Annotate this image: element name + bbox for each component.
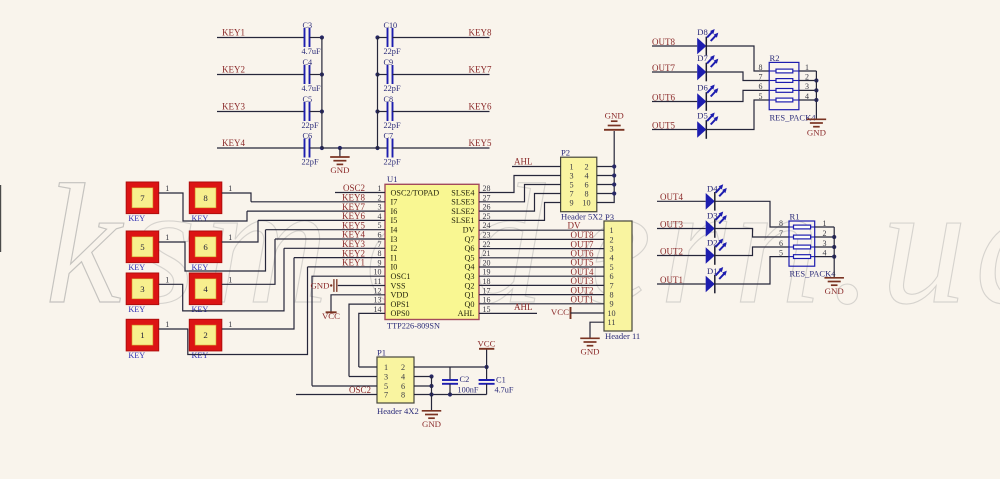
svg-text:1: 1 <box>378 184 382 193</box>
svg-text:7: 7 <box>779 229 783 238</box>
wire KEY8 to chip pin 2 <box>251 201 385 203</box>
junction P1 bus pin 8 <box>429 392 433 396</box>
svg-text:C9: C9 <box>384 58 394 67</box>
power port VCC above C1 <box>486 349 488 367</box>
key button 1 <box>126 319 159 351</box>
wire P1 pin 7 OSC2 <box>296 394 377 396</box>
svg-text:KEY2: KEY2 <box>222 65 245 75</box>
svg-text:3: 3 <box>569 171 573 180</box>
svg-text:Q5: Q5 <box>464 253 474 262</box>
IC U1 TTP226-809SN body <box>385 184 479 319</box>
junction R2 bus <box>814 98 818 102</box>
svg-text:6: 6 <box>584 180 588 189</box>
svg-text:2: 2 <box>401 363 405 372</box>
svg-text:AHL: AHL <box>514 302 533 312</box>
svg-text:7: 7 <box>378 240 382 249</box>
wire P2 right bus to GND <box>597 131 614 203</box>
wire KEY4 to C6 <box>217 147 305 149</box>
key button 2 <box>189 319 222 351</box>
wire D8 cathode to R2 <box>706 46 769 71</box>
svg-text:KEY5: KEY5 <box>469 138 492 148</box>
wire P1 pin 3 <box>349 376 377 378</box>
svg-text:KEY7: KEY7 <box>469 65 492 75</box>
svg-text:1: 1 <box>165 233 169 242</box>
svg-text:SLSE1: SLSE1 <box>451 216 474 225</box>
svg-text:I5: I5 <box>391 216 398 225</box>
wire R2 right pin to bus <box>799 70 817 72</box>
junction P2 bus <box>612 182 616 186</box>
junction P1 bus pin 4 <box>429 374 433 378</box>
svg-text:OSC2/TOPAD: OSC2/TOPAD <box>391 188 440 197</box>
wire OUT6 chip pin 21 to P3 pin 4 <box>479 257 604 259</box>
svg-text:R2: R2 <box>770 53 780 63</box>
svg-text:Q3: Q3 <box>464 272 474 281</box>
svg-text:7: 7 <box>759 72 763 81</box>
wire OUT3 anode <box>657 228 706 230</box>
wire P1 pin 6 to bus <box>414 385 432 387</box>
svg-text:C6: C6 <box>303 132 313 141</box>
LED D1 <box>706 276 715 293</box>
svg-text:4.7uF: 4.7uF <box>495 386 514 395</box>
svg-text:28: 28 <box>483 184 491 193</box>
wire cap to left bus <box>310 74 322 76</box>
wire R2 right pin to bus <box>799 80 817 82</box>
svg-text:OUT3: OUT3 <box>660 219 683 229</box>
wire D7 cathode to R2 <box>706 72 769 81</box>
capacitor C6 <box>304 139 306 158</box>
svg-text:C7: C7 <box>384 132 394 141</box>
svg-text:TTP226-809SN: TTP226-809SN <box>387 322 440 331</box>
svg-text:22pF: 22pF <box>384 47 401 56</box>
svg-text:2: 2 <box>203 330 207 340</box>
svg-text:4: 4 <box>584 171 588 180</box>
svg-text:GND: GND <box>422 419 441 429</box>
capacitor C1 <box>486 367 488 380</box>
wire key 2 to chip <box>222 258 294 329</box>
wire OUT7 anode <box>652 71 697 73</box>
svg-text:8: 8 <box>203 193 208 203</box>
svg-text:1: 1 <box>165 320 169 329</box>
LED D5 <box>697 121 706 138</box>
svg-text:U1: U1 <box>387 174 398 184</box>
svg-text:I1: I1 <box>391 253 398 262</box>
capacitor C5 <box>304 102 306 121</box>
svg-text:Header 11: Header 11 <box>605 331 640 341</box>
svg-text:KEY6: KEY6 <box>469 102 492 112</box>
svg-text:VDD: VDD <box>391 291 409 300</box>
svg-text:C10: C10 <box>384 21 398 30</box>
svg-text:Q4: Q4 <box>464 263 474 272</box>
svg-text:7: 7 <box>609 281 613 290</box>
key button 3 <box>126 273 159 305</box>
svg-text:OUT5: OUT5 <box>652 120 675 130</box>
wire cap to label KEY7 <box>393 74 490 76</box>
svg-text:OSC1: OSC1 <box>391 272 411 281</box>
wire P1 pin 1 <box>359 366 377 368</box>
wire D3 cathode to R1 <box>715 229 789 238</box>
svg-text:KEY: KEY <box>192 305 209 314</box>
wire R1 right pin to bus <box>815 246 835 248</box>
svg-text:KEY1: KEY1 <box>342 258 365 268</box>
svg-text:1: 1 <box>228 320 232 329</box>
svg-text:6: 6 <box>203 242 208 252</box>
junction R1 bus <box>832 255 836 259</box>
svg-text:KEY1: KEY1 <box>222 28 245 38</box>
LED D6 <box>697 93 706 110</box>
junction left bus <box>320 72 324 76</box>
svg-text:C2: C2 <box>460 375 470 384</box>
svg-text:22pF: 22pF <box>384 121 401 130</box>
wire P1 pin 5 <box>312 385 377 387</box>
svg-text:GND: GND <box>807 128 826 138</box>
wire KEY2 to chip pin 8 <box>294 257 385 259</box>
junction right bus <box>375 109 379 113</box>
svg-text:VSS: VSS <box>391 281 406 290</box>
svg-text:6: 6 <box>378 231 382 240</box>
svg-text:5: 5 <box>378 221 382 230</box>
svg-text:5: 5 <box>569 180 573 189</box>
svg-text:OSC2: OSC2 <box>349 385 371 395</box>
svg-text:2: 2 <box>609 235 613 244</box>
wire KEY1 to C3 <box>217 37 305 39</box>
svg-text:9: 9 <box>378 258 382 267</box>
ground below R2 <box>807 118 827 120</box>
svg-text:KEY: KEY <box>128 351 145 360</box>
svg-text:5: 5 <box>140 242 145 252</box>
svg-text:2: 2 <box>378 193 382 202</box>
svg-text:OUT8: OUT8 <box>652 37 675 47</box>
svg-text:7: 7 <box>140 193 145 203</box>
svg-text:KEY8: KEY8 <box>469 28 492 38</box>
key button 5 <box>126 231 159 263</box>
watermark text ksmodern.ua <box>45 150 1000 340</box>
ground below R1 <box>824 277 844 279</box>
wire R1 right pin to bus <box>815 256 835 258</box>
svg-text:6: 6 <box>609 272 613 281</box>
wire R2 gnd bus <box>815 71 817 119</box>
wire R1 right pin to bus <box>815 226 835 228</box>
wire SLSE2 chip pin 26 to P2 pin 7 <box>479 194 561 212</box>
svg-text:k: k <box>45 150 129 340</box>
svg-text:18: 18 <box>483 277 491 286</box>
wire P2 pin to bus <box>597 166 614 168</box>
svg-text:3: 3 <box>609 245 613 254</box>
right cap bus wire <box>377 38 379 149</box>
header P3 body <box>604 221 632 331</box>
wire R1 gnd bus <box>833 227 835 278</box>
svg-text:D6: D6 <box>697 83 708 93</box>
junction at GND stub <box>338 146 342 150</box>
ground port at VSS pin 11 <box>338 285 385 287</box>
svg-text:4.7uF: 4.7uF <box>302 84 322 93</box>
svg-text:C3: C3 <box>303 21 313 30</box>
wire SLSE4 chip pin 28 to P2 pin 3 <box>479 176 561 193</box>
svg-text:RES_PACK4: RES_PACK4 <box>770 113 817 123</box>
wire OUT5 anode <box>652 129 697 131</box>
svg-text:5: 5 <box>609 263 613 272</box>
wire OUT6 anode <box>652 101 697 103</box>
wire cap to left bus <box>310 147 322 149</box>
wire OPS0 pin 14 to P1 pin 1 <box>359 313 385 367</box>
svg-text:4: 4 <box>203 284 208 294</box>
svg-text:D2: D2 <box>707 238 718 248</box>
svg-text:11: 11 <box>374 277 382 286</box>
junction right bus <box>375 35 379 39</box>
wire OPS1 pin 13 to P1 pin 3 <box>349 304 385 376</box>
svg-text:3: 3 <box>378 203 382 212</box>
svg-text:Header 4X2: Header 4X2 <box>377 406 419 416</box>
svg-text:I3: I3 <box>391 235 398 244</box>
wire P3 pin 11 to GND <box>590 322 604 338</box>
capacitor C7 <box>378 147 388 149</box>
wire P1 pin 2 to VCC <box>414 366 487 368</box>
wire OUT8 chip pin 23 to P3 pin 2 <box>479 238 604 240</box>
svg-text:Q0: Q0 <box>464 300 474 309</box>
wire OSC2 pin 1 <box>335 192 385 194</box>
svg-text:24: 24 <box>483 221 491 230</box>
svg-text:I6: I6 <box>391 207 398 216</box>
LED D4 <box>706 193 715 210</box>
capacitor C3 <box>304 28 306 47</box>
svg-text:GND: GND <box>605 111 624 121</box>
wire key 4 to chip <box>222 239 275 284</box>
wire cap to label KEY5 <box>393 147 490 149</box>
svg-text:8: 8 <box>779 219 783 228</box>
svg-text:4: 4 <box>378 212 382 221</box>
svg-text:P2: P2 <box>561 147 570 157</box>
wire OUT2 chip pin 17 to P3 pin 8 <box>479 294 604 296</box>
svg-text:7: 7 <box>384 390 388 399</box>
svg-text:1: 1 <box>165 275 169 284</box>
svg-text:C5: C5 <box>303 95 313 104</box>
svg-text:OUT7: OUT7 <box>652 63 675 73</box>
capacitor C8 <box>378 111 388 113</box>
junction C2 bottom <box>448 392 452 396</box>
svg-text:GND: GND <box>580 347 599 357</box>
wire D5 cathode to R2 <box>706 100 769 130</box>
svg-text:D7: D7 <box>697 53 708 63</box>
svg-text:100nF: 100nF <box>458 385 479 394</box>
svg-text:2: 2 <box>584 162 588 171</box>
header P1 body <box>377 357 414 403</box>
svg-text:22pF: 22pF <box>384 84 401 93</box>
key button 8 <box>189 182 222 214</box>
wire D1 cathode to R1 <box>715 257 789 284</box>
svg-text:Q6: Q6 <box>464 244 474 253</box>
junction P1 bus pin 6 <box>429 384 433 388</box>
wire D4 cathode to R1 <box>715 201 789 227</box>
svg-text:1: 1 <box>609 226 613 235</box>
svg-text:21: 21 <box>483 249 491 258</box>
junction left bus <box>320 146 324 150</box>
wire R2 right pin to bus <box>799 99 817 101</box>
svg-text:15: 15 <box>483 305 491 314</box>
wire OSC1 pin 10 to P1 pin 5 <box>312 276 385 386</box>
wire P1 pin 8 gnd rail <box>414 394 487 396</box>
svg-text:10: 10 <box>582 198 590 207</box>
svg-text:Q1: Q1 <box>464 291 474 300</box>
svg-text:13: 13 <box>374 296 382 305</box>
ground top section <box>339 148 341 157</box>
svg-text:22: 22 <box>483 240 491 249</box>
svg-text:I7: I7 <box>391 198 398 207</box>
power port VCC at VDD pin 12 <box>331 295 385 312</box>
key button 7 <box>126 182 159 214</box>
wire DV chip pin 24 to P3 pin 1 <box>479 229 604 231</box>
wire OUT7 chip pin 22 to P3 pin 3 <box>479 248 604 250</box>
svg-text:10: 10 <box>607 309 615 318</box>
svg-text:8: 8 <box>401 390 405 399</box>
svg-text:1: 1 <box>569 162 573 171</box>
svg-text:SLSE4: SLSE4 <box>451 188 474 197</box>
resistor pack R1 <box>789 221 815 266</box>
key button 6 <box>189 231 222 263</box>
svg-text:D1: D1 <box>707 266 718 276</box>
svg-text:OUT6: OUT6 <box>652 92 675 102</box>
svg-text:OUT2: OUT2 <box>660 246 683 256</box>
svg-text:KEY: KEY <box>128 263 145 272</box>
left cap bus wire <box>321 38 323 149</box>
svg-text:OPS0: OPS0 <box>391 309 410 318</box>
svg-text:8: 8 <box>584 189 588 198</box>
svg-text:VCC: VCC <box>551 307 569 317</box>
wire SLSE3 chip pin 27 to P2 pin 5 <box>479 185 561 202</box>
svg-text:KEY4: KEY4 <box>222 138 245 148</box>
wire D2 cathode to R1 <box>715 247 789 256</box>
junction VCC C1 top <box>485 365 489 369</box>
key button 4 <box>189 273 222 305</box>
svg-text:8: 8 <box>609 291 613 300</box>
svg-text:10: 10 <box>374 268 382 277</box>
svg-text:4: 4 <box>401 372 405 381</box>
wire key 8 to chip <box>222 193 251 202</box>
wire KEY7 to chip pin 3 <box>247 210 385 212</box>
junction R1 bus <box>832 235 836 239</box>
svg-text:SLSE2: SLSE2 <box>451 207 474 216</box>
wire OUT1 chip pin 16 to P3 pin 9 <box>479 303 604 305</box>
svg-text:D3: D3 <box>707 211 718 221</box>
capacitor C2 <box>449 367 451 380</box>
svg-text:OUT4: OUT4 <box>660 192 683 202</box>
svg-text:1: 1 <box>228 233 232 242</box>
svg-text:5: 5 <box>759 92 763 101</box>
svg-text:P1: P1 <box>377 348 386 358</box>
capacitor C4 <box>304 65 306 84</box>
svg-text:GND: GND <box>825 286 844 296</box>
svg-text:C8: C8 <box>384 95 394 104</box>
svg-text:27: 27 <box>483 193 491 202</box>
svg-text:DV: DV <box>568 220 581 230</box>
svg-text:I4: I4 <box>391 226 398 235</box>
junction right bus <box>375 146 379 150</box>
svg-text:17: 17 <box>483 286 491 295</box>
svg-text:11: 11 <box>608 318 616 327</box>
svg-text:GND: GND <box>310 281 329 291</box>
wire KEY5 to chip pin 5 <box>266 229 386 231</box>
svg-text:D5: D5 <box>697 111 708 121</box>
wire KEY2 to C4 <box>217 74 305 76</box>
svg-text:OUT1: OUT1 <box>660 275 683 285</box>
junction R2 bus <box>814 78 818 82</box>
svg-text:4.7uF: 4.7uF <box>302 47 322 56</box>
junction P2 bus <box>612 191 616 195</box>
svg-text:25: 25 <box>483 212 491 221</box>
junction P2 bus <box>612 164 616 168</box>
svg-text:22pF: 22pF <box>384 158 401 167</box>
svg-text:1: 1 <box>165 184 169 193</box>
wire cap to left bus <box>310 37 322 39</box>
junction left bus <box>320 109 324 113</box>
svg-text:I0: I0 <box>391 263 398 272</box>
wire SLSE1 chip pin 25 to P2 pin 9 <box>479 203 561 221</box>
svg-text:KEY: KEY <box>128 214 145 223</box>
svg-text:14: 14 <box>374 305 382 314</box>
wire key 5 to chip <box>159 230 266 271</box>
junction P2 bus <box>612 173 616 177</box>
svg-text:GND: GND <box>330 165 349 175</box>
svg-text:8: 8 <box>759 63 763 72</box>
wire key 1 to chip <box>159 267 308 355</box>
wire D6 cathode to R2 <box>706 90 769 101</box>
wire P1 pin 4 to bus <box>414 376 432 378</box>
svg-text:P3: P3 <box>605 212 614 222</box>
wire OUT5 chip pin 20 to P3 pin 5 <box>479 266 604 268</box>
wire AHL from chip pin 15 <box>479 312 537 314</box>
svg-text:3: 3 <box>384 372 388 381</box>
svg-text:3: 3 <box>140 284 145 294</box>
wire AHL to P2 pin 1 <box>512 166 561 168</box>
wire OUT1 anode <box>657 283 706 285</box>
wire KEY3 to C5 <box>217 111 305 113</box>
wire R1 right pin to bus <box>815 236 835 238</box>
wire P2 pin to bus <box>597 193 614 195</box>
svg-text:5: 5 <box>779 248 783 257</box>
wire OUT3 chip pin 18 to P3 pin 7 <box>479 284 604 286</box>
svg-text:OSC2: OSC2 <box>343 183 365 193</box>
svg-text:AHL: AHL <box>458 309 475 318</box>
svg-text:19: 19 <box>483 268 491 277</box>
wire OUT4 anode <box>657 200 706 202</box>
svg-text:7: 7 <box>569 189 573 198</box>
wire R2 right pin to bus <box>799 89 817 91</box>
junction R2 bus <box>814 88 818 92</box>
svg-text:1: 1 <box>140 330 144 340</box>
wire P1 gnd bus <box>431 377 433 411</box>
svg-text:.ua: .ua <box>830 150 1000 340</box>
wire KEY4 to chip pin 6 <box>275 238 385 240</box>
svg-text:SLSE3: SLSE3 <box>451 198 474 207</box>
svg-text:22pF: 22pF <box>302 121 319 130</box>
LED D8 <box>697 38 706 55</box>
junction R1 bus <box>832 245 836 249</box>
wire cap to label KEY6 <box>393 111 490 113</box>
wire key 6 to chip <box>222 220 258 242</box>
LED D3 <box>706 220 715 237</box>
wire cap to left bus <box>310 111 322 113</box>
header P2 body <box>561 157 597 212</box>
wire OUT4 chip pin 19 to P3 pin 6 <box>479 275 604 277</box>
svg-text:VCC: VCC <box>477 338 495 348</box>
svg-text:R1: R1 <box>790 212 800 222</box>
svg-text:AHL: AHL <box>514 157 533 167</box>
svg-text:C4: C4 <box>303 58 313 67</box>
svg-text:23: 23 <box>483 231 491 240</box>
watermark scan edge mark <box>0 185 2 252</box>
svg-text:KEY: KEY <box>128 305 145 314</box>
svg-text:1: 1 <box>228 184 232 193</box>
svg-text:D8: D8 <box>697 27 708 37</box>
wire key 7 to chip <box>159 193 247 221</box>
